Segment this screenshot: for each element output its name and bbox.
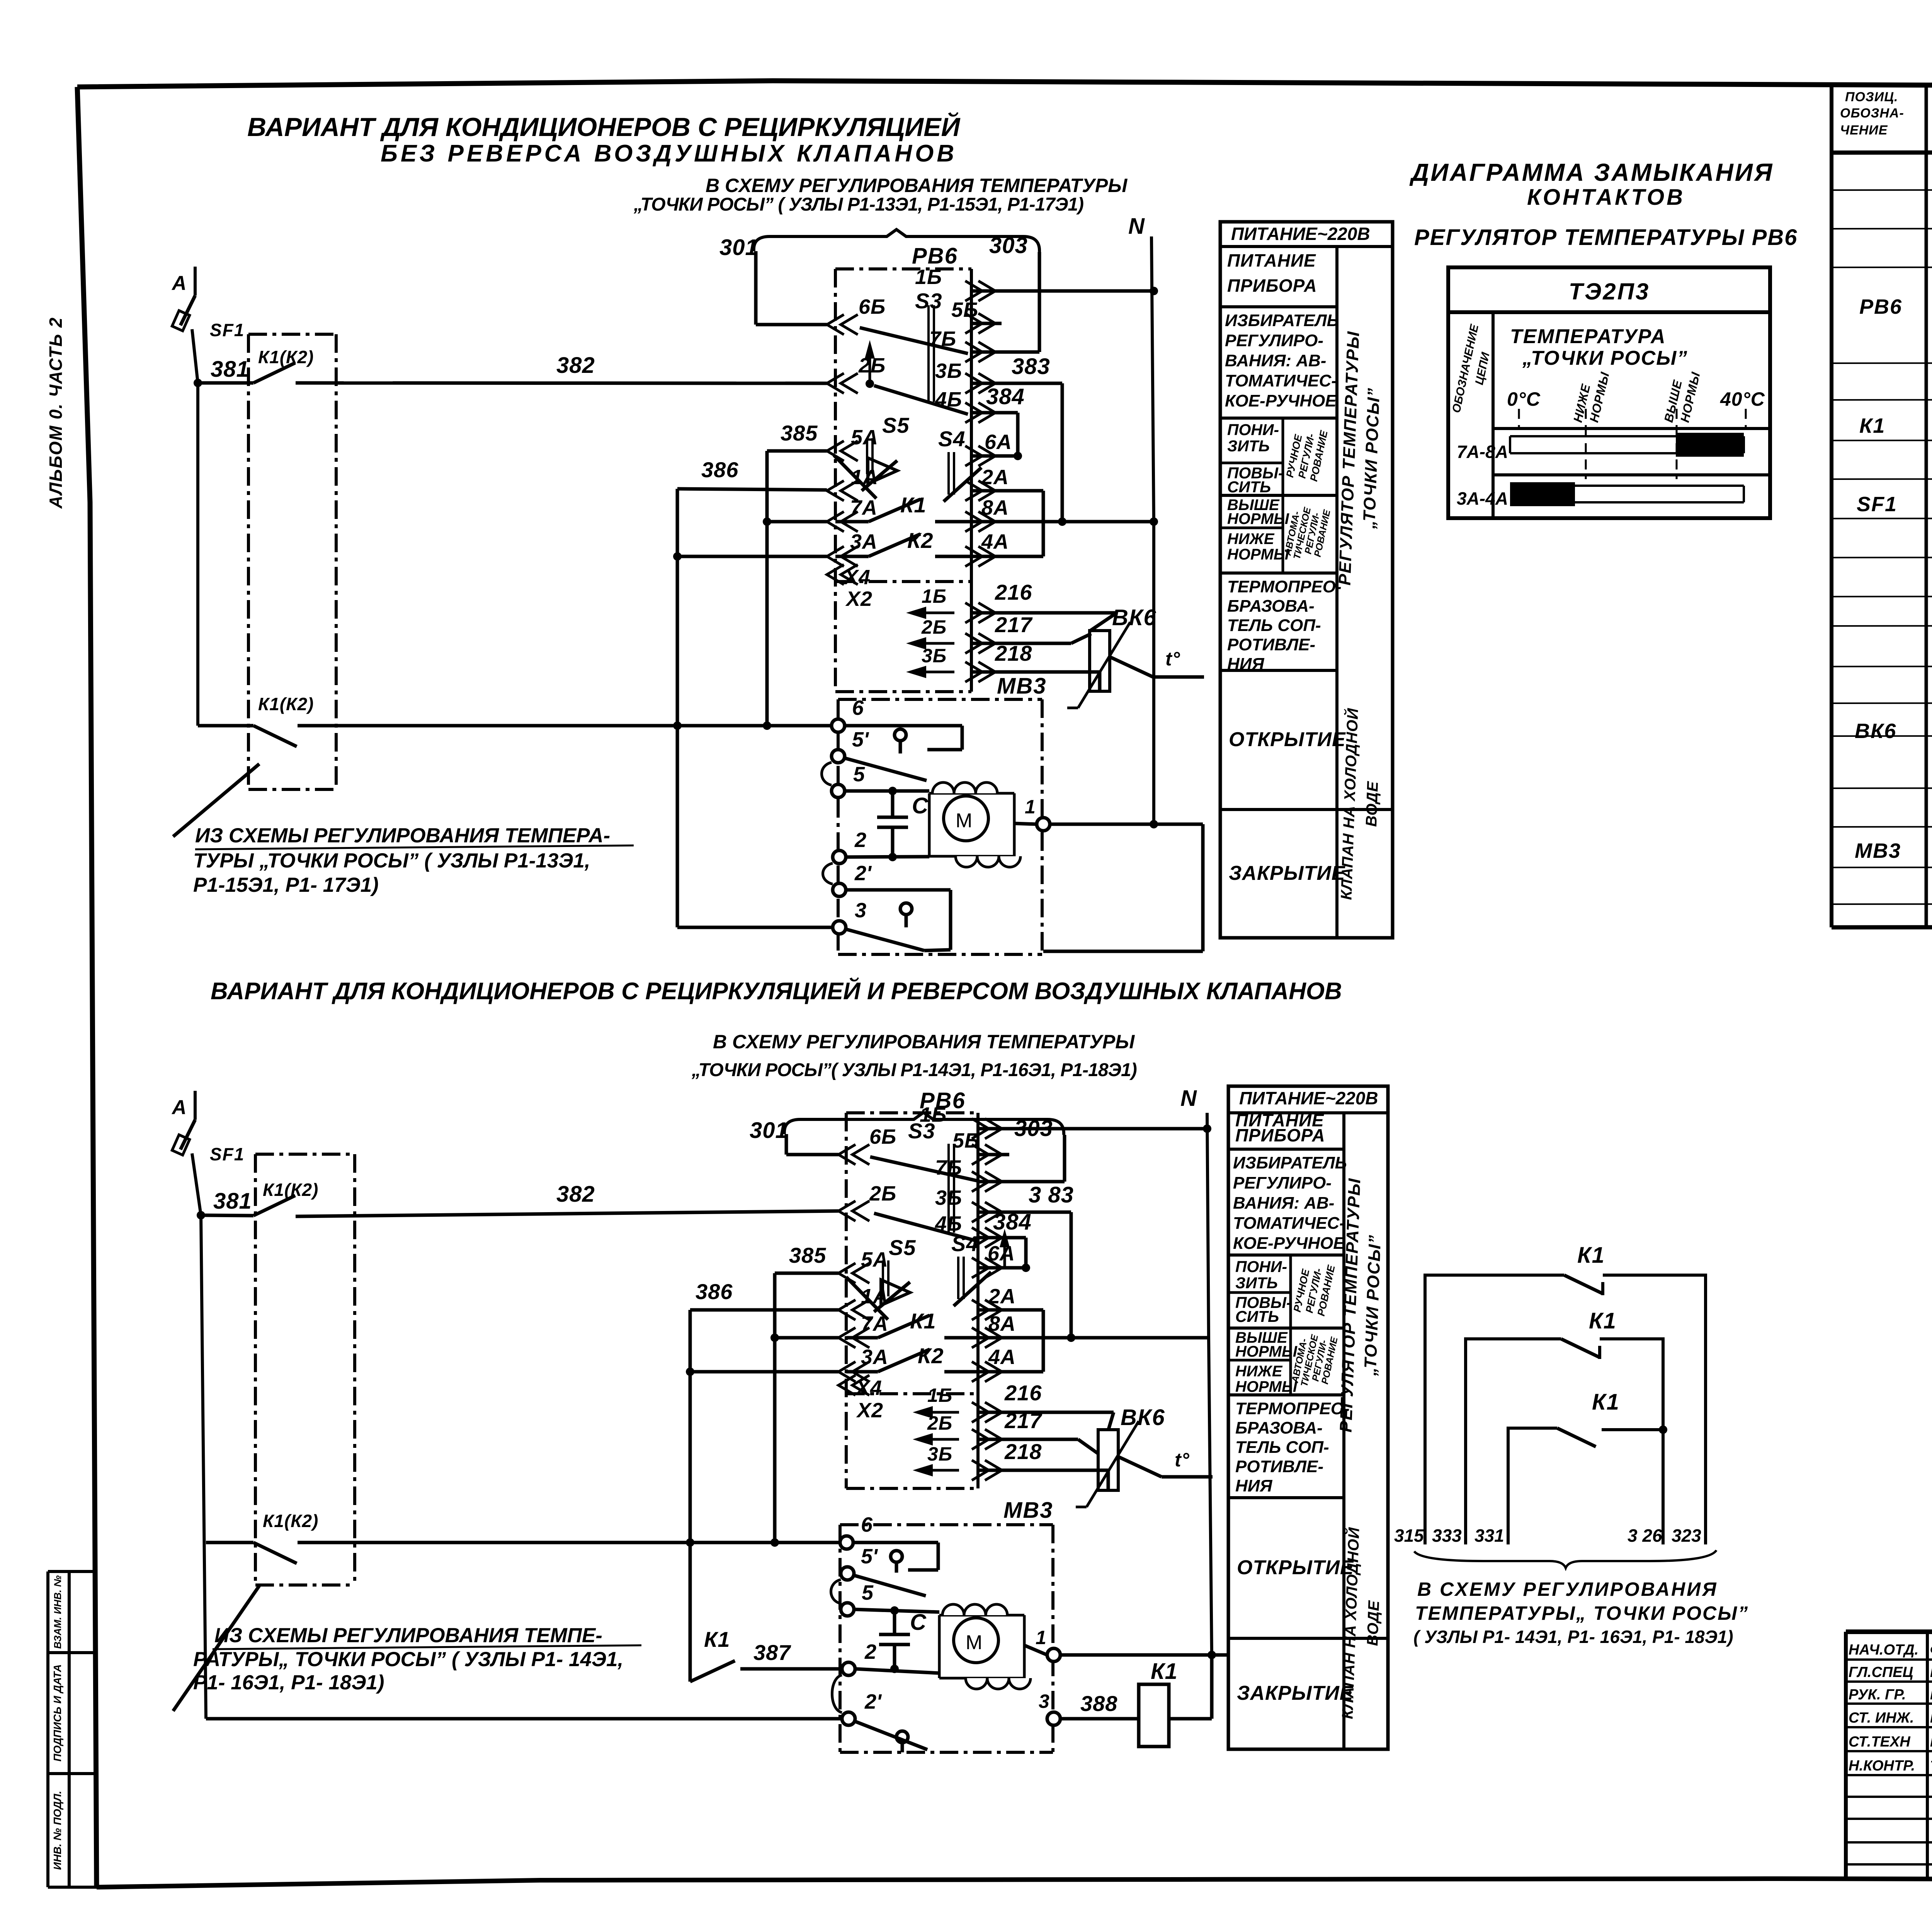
- svg-text:8А: 8А: [981, 496, 1009, 519]
- capacitor C (2): [893, 1611, 896, 1634]
- svg-text:5Б: 5Б: [952, 1129, 980, 1152]
- terminal 2B: [827, 373, 844, 393]
- selector triangle: [868, 458, 897, 484]
- svg-text:3: 3: [855, 899, 866, 922]
- svg-text:К1(К2): К1(К2): [258, 694, 314, 714]
- svg-text:3 83: 3 83: [1029, 1182, 1074, 1207]
- svg-text:М: М: [966, 1631, 982, 1654]
- svg-text:5А: 5А: [851, 426, 878, 449]
- svg-text:S3: S3: [908, 1119, 935, 1143]
- svg-text:НИЖЕ: НИЖЕ: [1227, 531, 1275, 548]
- svg-text:РУК. ГР.: РУК. ГР.: [1849, 1687, 1906, 1703]
- svg-text:ИЗБИРАТЕЛЬ: ИЗБИРАТЕЛЬ: [1225, 311, 1339, 330]
- svg-text:ВЗАМ. ИНВ. №: ВЗАМ. ИНВ. №: [52, 1575, 63, 1649]
- svg-text:218: 218: [995, 641, 1032, 665]
- riser 386 down to contact K1 (2): [689, 1310, 692, 1682]
- sensor terminal 3B-218: [918, 671, 954, 673]
- title block frame: [1846, 1632, 1932, 1880]
- svg-text:Р1-15Э1, Р1- 17Э1): Р1-15Э1, Р1- 17Э1): [193, 874, 379, 896]
- svg-text:БРАЗОВА-: БРАЗОВА-: [1227, 597, 1315, 616]
- svg-text:КОЕ-РУЧНОЕ: КОЕ-РУЧНОЕ: [1225, 391, 1337, 410]
- svg-text:S4: S4: [951, 1231, 979, 1256]
- svg-text:„ТОЧКИ РОСЫ”: „ТОЧКИ РОСЫ”: [1522, 347, 1688, 369]
- terminal 2 (2): [842, 1662, 855, 1675]
- svg-text:НОРМЫ: НОРМЫ: [1227, 510, 1289, 527]
- node 381 junction: [194, 379, 202, 387]
- MB3 boundary dash-dot (2): [840, 1525, 1053, 1752]
- wire 386: [677, 489, 827, 490]
- svg-text:40°С: 40°С: [1720, 388, 1765, 410]
- svg-text:6А: 6А: [985, 430, 1012, 454]
- svg-text:К1(К2): К1(К2): [263, 1511, 318, 1531]
- svg-text:ТЕМПЕРАТУРА: ТЕМПЕРАТУРА: [1510, 325, 1666, 348]
- svg-text:ФИНГЕР: ФИНГЕР: [1930, 1642, 1932, 1658]
- svg-text:382: 382: [556, 1182, 595, 1207]
- upper limit switch: [845, 724, 962, 728]
- svg-text:СТ. ИНЖ.: СТ. ИНЖ.: [1849, 1710, 1914, 1726]
- terminal 6B: [827, 315, 844, 335]
- svg-text:КОНТАКТОВ: КОНТАКТОВ: [1527, 185, 1685, 210]
- svg-text:218: 218: [1004, 1439, 1042, 1464]
- terminal 5B (2): [972, 1145, 989, 1165]
- svg-text:СИТЬ: СИТЬ: [1235, 1308, 1279, 1325]
- svg-text:3А: 3А: [850, 530, 878, 553]
- svg-text:БЕЗ РЕВЕРСА ВОЗДУШНЫХ КЛАПА: БЕЗ РЕВЕРСА ВОЗДУШНЫХ КЛАПАНОВ: [381, 140, 957, 167]
- svg-text:3А: 3А: [861, 1345, 888, 1369]
- svg-text:ПОЗИЦ.: ПОЗИЦ.: [1845, 90, 1898, 104]
- svg-text:3Б: 3Б: [927, 1443, 952, 1465]
- svg-text:Х4: Х4: [843, 566, 871, 589]
- terminal 2B (2): [838, 1201, 855, 1221]
- svg-text:ВОДЕ: ВОДЕ: [1364, 1600, 1383, 1646]
- svg-text:383: 383: [1012, 354, 1050, 379]
- svg-text:6Б: 6Б: [859, 295, 886, 318]
- svg-text:385: 385: [789, 1243, 826, 1267]
- svg-text:3Б: 3Б: [922, 645, 947, 667]
- svg-text:ПИТАНИЕ: ПИТАНИЕ: [1227, 250, 1316, 270]
- wire 5 to motor: [845, 789, 929, 793]
- terminal 5p: [832, 750, 845, 763]
- svg-text:ВАРИАНТ ДЛЯ КОНДИЦИОНЕРОВ С: ВАРИАНТ ДЛЯ КОНДИЦИОНЕРОВ С РЕЦИРКУЛЯЦИЕ…: [211, 977, 1342, 1005]
- svg-text:РЕГУЛЯТОР ТЕМПЕРАТУРЫ РВ6: РЕГУЛЯТОР ТЕМПЕРАТУРЫ РВ6: [1414, 225, 1798, 250]
- svg-text:НОРМЫ: НОРМЫ: [1227, 546, 1289, 563]
- terminal 8A wire to N bus: [965, 512, 982, 532]
- upper limit switch (2): [853, 1541, 938, 1544]
- terminal 7A / contact K1 (2): [838, 1328, 855, 1348]
- terminal X4: [827, 565, 844, 585]
- svg-text:303: 303: [989, 233, 1028, 258]
- svg-text:РЕГУЛИРО-: РЕГУЛИРО-: [1233, 1173, 1332, 1192]
- svg-text:ПИТАНИЕ~220В: ПИТАНИЕ~220В: [1231, 224, 1370, 244]
- svg-text:ОБОЗНА-: ОБОЗНА-: [1840, 106, 1904, 121]
- lead-in bracket (2): [784, 1112, 1064, 1135]
- svg-text:1Б: 1Б: [922, 585, 947, 607]
- svg-text:323: 323: [1672, 1526, 1701, 1546]
- terminal 2A (2): [972, 1300, 989, 1320]
- svg-text:ОТКРЫТИЕ: ОТКРЫТИЕ: [1229, 728, 1346, 751]
- svg-text:К1: К1: [1592, 1389, 1620, 1415]
- svg-text:4А: 4А: [981, 530, 1009, 553]
- svg-text:РУБЧИННСКИЙ: РУБЧИННСКИЙ: [1930, 1664, 1932, 1680]
- terminal 3: [833, 921, 846, 934]
- svg-text:ТЕРМОПРЕО-: ТЕРМОПРЕО-: [1235, 1399, 1350, 1418]
- svg-text:МВ3: МВ3: [997, 673, 1046, 699]
- terminal 4B wire 384: [965, 403, 982, 423]
- wire 301 to terminal 6B: [754, 251, 758, 325]
- svg-text:ПОДПИСЬ И ДАТА: ПОДПИСЬ И ДАТА: [51, 1664, 63, 1762]
- wire: phase bus from SF1: [192, 329, 198, 726]
- svg-text:С: С: [912, 793, 929, 818]
- svg-text:315: 315: [1394, 1526, 1424, 1546]
- svg-text:5А: 5А: [861, 1248, 888, 1271]
- svg-text:ЗИТЬ: ЗИТЬ: [1227, 437, 1270, 455]
- wire 385: [767, 449, 827, 453]
- svg-text:2': 2': [854, 862, 872, 885]
- svg-text:217: 217: [995, 612, 1033, 637]
- svg-text:ИЗ СХЕМЫ РЕГУЛИРОВАНИЯ ТЕМПЕ-: ИЗ СХЕМЫ РЕГУЛИРОВАНИЯ ТЕМПЕ-: [214, 1624, 602, 1647]
- PB6 boundary dash-dot: [835, 269, 971, 692]
- svg-text:5': 5': [861, 1545, 878, 1568]
- svg-text:7А-8А: 7А-8А: [1457, 442, 1508, 462]
- svg-text:СТ.ТЕХН: СТ.ТЕХН: [1849, 1734, 1911, 1750]
- svg-text:387: 387: [753, 1640, 791, 1665]
- riser from wire 386 down to terminal 3: [676, 489, 679, 927]
- terminal 4A (2): [972, 1362, 989, 1382]
- svg-text:2: 2: [854, 828, 866, 852]
- svg-text:2А: 2А: [981, 466, 1009, 489]
- motor M (2): [939, 1614, 1024, 1617]
- svg-text:РОТИВЛЕ-: РОТИВЛЕ-: [1227, 635, 1315, 654]
- wire 301 to terminal 6B (2): [785, 1134, 788, 1155]
- svg-text:Х2: Х2: [856, 1399, 883, 1422]
- leader line to note: [173, 764, 259, 837]
- svg-text:7Б: 7Б: [935, 1156, 962, 1179]
- terminal 2A: [965, 481, 982, 501]
- riser coil to N wire (2): [1210, 1655, 1214, 1719]
- svg-text:S5: S5: [889, 1235, 916, 1260]
- scale tick lines: [1518, 409, 1520, 427]
- svg-text:ПИТАНИЕ~220В: ПИТАНИЕ~220В: [1239, 1088, 1378, 1108]
- svg-text:333: 333: [1432, 1526, 1462, 1546]
- svg-text:SF1: SF1: [210, 320, 245, 340]
- svg-text:S4: S4: [938, 427, 966, 451]
- svg-text:381: 381: [213, 1189, 252, 1214]
- svg-text:1Б: 1Б: [927, 1384, 952, 1406]
- terminal 4B wire 384 (2): [972, 1228, 989, 1248]
- svg-text:388: 388: [1080, 1691, 1117, 1716]
- svg-text:МВ3: МВ3: [1003, 1498, 1053, 1523]
- terminal 6A (2): [972, 1258, 989, 1278]
- svg-text:386: 386: [696, 1279, 733, 1304]
- svg-text:„ТОЧКИ РОСЫ” ( УЗЛЫ Р1-13Э1, Р: „ТОЧКИ РОСЫ” ( УЗЛЫ Р1-13Э1, Р1-15Э1, Р1…: [633, 194, 1083, 215]
- terminal 5 (2): [841, 1603, 854, 1616]
- svg-text:А: А: [171, 272, 187, 294]
- wire 388 to relay coil K1: [1060, 1717, 1139, 1721]
- svg-text:8А: 8А: [988, 1312, 1016, 1335]
- svg-text:SF1: SF1: [1857, 493, 1897, 516]
- riser 385 to wire A (2): [773, 1273, 777, 1543]
- terminal 3 (2): [1047, 1712, 1060, 1725]
- svg-text:НИЯ: НИЯ: [1227, 655, 1264, 673]
- svg-text:ВК6: ВК6: [1121, 1405, 1165, 1430]
- svg-text:К1: К1: [1577, 1243, 1605, 1268]
- svg-text:НАЧ.ОТД.: НАЧ.ОТД.: [1849, 1642, 1918, 1658]
- svg-text:ЕФИМКИНА: ЕФИМКИНА: [1930, 1734, 1932, 1750]
- svg-text:Р1- 16Э1, Р1- 18Э1): Р1- 16Э1, Р1- 18Э1): [193, 1671, 384, 1694]
- svg-text:А: А: [171, 1096, 187, 1119]
- svg-text:1: 1: [1036, 1627, 1046, 1648]
- sensor terminal 1B-216: [918, 612, 954, 614]
- terminal X4 (2): [838, 1375, 855, 1395]
- svg-text:N: N: [1180, 1086, 1197, 1111]
- svg-text:НИЖЕ: НИЖЕ: [1235, 1363, 1283, 1380]
- svg-text:3Б: 3Б: [935, 359, 962, 383]
- lower limit switch (2): [896, 1731, 908, 1743]
- riser from wire 385 to wire A: [765, 451, 769, 726]
- svg-text:БРАЗОВА-: БРАЗОВА-: [1235, 1418, 1323, 1437]
- svg-text:РВ6: РВ6: [1859, 295, 1902, 318]
- sensor terminal 2B-217: [918, 642, 954, 645]
- svg-text:1А: 1А: [851, 466, 878, 489]
- svg-text:7А: 7А: [850, 496, 878, 519]
- terminal 2: [833, 850, 846, 864]
- svg-text:КОЕ-РУЧНОЕ: КОЕ-РУЧНОЕ: [1233, 1234, 1345, 1253]
- svg-text:6: 6: [852, 696, 864, 719]
- terminal 7B wire 303: [965, 342, 982, 362]
- svg-text:В СХЕМУ РЕГУЛИРОВАНИЯ ТЕМПЕРАТ: В СХЕМУ РЕГУЛИРОВАНИЯ ТЕМПЕРАТУРЫ: [713, 1031, 1135, 1053]
- svg-text:БРОНШТЕЙН: БРОНШТЕЙН: [1930, 1686, 1932, 1702]
- terminal 5B: [965, 313, 982, 333]
- svg-text:216: 216: [1004, 1381, 1042, 1405]
- svg-text:1А: 1А: [861, 1285, 888, 1308]
- svg-text:3Б: 3Б: [935, 1186, 962, 1209]
- terminal 5p (2): [841, 1567, 854, 1580]
- wire from terminal 1 to N bus (2): [1060, 1653, 1228, 1657]
- component list table: [1832, 86, 1932, 927]
- svg-text:t°: t°: [1175, 1449, 1190, 1471]
- svg-text:384: 384: [993, 1209, 1032, 1235]
- svg-text:301: 301: [719, 235, 758, 260]
- terminal 1B wire to N bus (2): [972, 1119, 989, 1139]
- wire 7A stub (2): [775, 1336, 838, 1340]
- svg-text:ВАНИЯ: АВ-: ВАНИЯ: АВ-: [1225, 351, 1326, 370]
- svg-text:С: С: [910, 1610, 927, 1635]
- svg-text:384: 384: [986, 384, 1025, 409]
- manual direction arrow (2): [1003, 1239, 1006, 1267]
- wire A to terminal 6 (2): [206, 1541, 253, 1544]
- svg-text:К1: К1: [704, 1627, 730, 1651]
- brace under ladder: [1414, 1550, 1716, 1568]
- terminal 5A (2): [838, 1263, 855, 1283]
- svg-text:382: 382: [556, 353, 595, 378]
- svg-text:ПОНИ-: ПОНИ-: [1227, 421, 1279, 439]
- svg-text:ТЕЛЬ СОП-: ТЕЛЬ СОП-: [1235, 1438, 1329, 1457]
- terminal 8A wire to N bus (2): [972, 1328, 989, 1348]
- lower limit switch: [846, 888, 951, 892]
- svg-text:ЗАКРЫТИЕ: ЗАКРЫТИЕ: [1229, 862, 1345, 884]
- svg-text:ТУРЫ „ТОЧКИ РОСЫ” ( УЗЛЫ Р1-13: ТУРЫ „ТОЧКИ РОСЫ” ( УЗЛЫ Р1-13Э1,: [193, 849, 590, 872]
- svg-text:1Б: 1Б: [915, 265, 942, 289]
- svg-text:ВАРИАНТ ДЛЯ КОНДИЦИОНЕРОВ С: ВАРИАНТ ДЛЯ КОНДИЦИОНЕРОВ С РЕЦИРКУЛЯЦИЕ…: [247, 112, 961, 142]
- wire: phase bus from SF1 (2): [192, 1153, 206, 1719]
- svg-text:4А: 4А: [988, 1345, 1016, 1369]
- svg-text:К2: К2: [918, 1344, 944, 1368]
- selector triangle (2): [881, 1280, 910, 1305]
- svg-text:4Б: 4Б: [935, 388, 962, 411]
- svg-text:331: 331: [1475, 1526, 1504, 1546]
- svg-text:216: 216: [995, 580, 1032, 604]
- svg-text:5: 5: [853, 763, 865, 786]
- relay housing K1 dash-dot box (2): [255, 1154, 355, 1585]
- terminal 6 (2): [840, 1536, 853, 1549]
- svg-text:SF1: SF1: [210, 1144, 245, 1164]
- svg-text:ЧЕНИЕ: ЧЕНИЕ: [1840, 123, 1888, 138]
- svg-text:6: 6: [861, 1513, 873, 1536]
- node 381 junction (2): [197, 1211, 205, 1219]
- terminal 1: [1014, 823, 1037, 824]
- svg-text:6Б: 6Б: [869, 1125, 896, 1148]
- terminal 5: [832, 784, 845, 798]
- terminal 1A: [827, 481, 844, 501]
- svg-text:СИТЬ: СИТЬ: [1227, 478, 1271, 496]
- svg-text:В СХЕМУ РЕГУЛИРОВАНИЯ: В СХЕМУ РЕГУЛИРОВАНИЯ: [1417, 1578, 1718, 1600]
- svg-text:7Б: 7Б: [929, 327, 956, 350]
- wire 382: [296, 383, 827, 383]
- svg-text:РАТУРЫ„ ТОЧКИ РОСЫ” ( УЗЛЫ Р1-: РАТУРЫ„ ТОЧКИ РОСЫ” ( УЗЛЫ Р1- 14Э1,: [193, 1648, 623, 1671]
- wire 387: [740, 1667, 842, 1671]
- svg-text:7А: 7А: [861, 1312, 888, 1335]
- svg-text:386: 386: [701, 457, 738, 482]
- svg-text:НИЯ: НИЯ: [1235, 1476, 1272, 1495]
- wire from terminal 1 to N bus: [1050, 823, 1203, 826]
- breaker SF1: [180, 1120, 195, 1150]
- wire 7A stub: [767, 520, 827, 524]
- svg-text:РОТИВЛЕ-: РОТИВЛЕ-: [1235, 1457, 1323, 1476]
- left stamp column boxes: [48, 1571, 97, 1887]
- terminal 7A / contact K1: [827, 512, 844, 532]
- svg-text:АЛЬБОМ 0. ЧАСТЬ 2: АЛЬБОМ 0. ЧАСТЬ 2: [46, 317, 66, 509]
- svg-text:Х4: Х4: [855, 1376, 882, 1400]
- terminal 3B wire 383 (2): [972, 1202, 989, 1222]
- terminal 1A (2): [838, 1300, 855, 1320]
- svg-text:301: 301: [750, 1118, 788, 1143]
- svg-text:НИКИФОРОВА: НИКИФОРОВА: [1930, 1710, 1932, 1726]
- leader line to note (2): [173, 1586, 259, 1711]
- sensor terminal 1B-216 (2): [924, 1411, 959, 1414]
- svg-text:К1: К1: [1151, 1659, 1178, 1684]
- terminal 1B wire to N bus: [965, 281, 982, 301]
- svg-text:„ТОЧКИ РОСЫ”( УЗЛЫ Р1-14Э1, Р1: „ТОЧКИ РОСЫ”( УЗЛЫ Р1-14Э1, Р1-16Э1, Р1-…: [691, 1060, 1137, 1080]
- wire N bus bottom to MB3: [1043, 950, 1203, 953]
- thermistor BK6 (2): [1098, 1430, 1118, 1490]
- svg-text:ВОДЕ: ВОДЕ: [1363, 781, 1381, 827]
- svg-text:ТЕМПЕРАТУРЫ„ ТОЧКИ РОСЫ”: ТЕМПЕРАТУРЫ„ ТОЧКИ РОСЫ”: [1415, 1602, 1749, 1624]
- svg-text:ГЛ.СПЕЦ: ГЛ.СПЕЦ: [1849, 1664, 1913, 1680]
- closing-path riser: [1201, 824, 1205, 951]
- svg-text:ТУЛУПОВА: ТУЛУПОВА: [1930, 1758, 1932, 1774]
- terminal 1 (2): [1024, 1645, 1047, 1655]
- wire 385 (2): [775, 1272, 838, 1275]
- svg-text:3: 3: [1039, 1690, 1049, 1712]
- svg-text:РЕГУЛИРО-: РЕГУЛИРО-: [1225, 331, 1323, 350]
- svg-text:М: М: [956, 810, 972, 832]
- svg-text:Х2: Х2: [845, 587, 872, 611]
- svg-text:К2: К2: [907, 528, 934, 553]
- contact K1(K2) upper: [198, 381, 253, 385]
- capacitor C: [891, 791, 895, 817]
- svg-text:ИЗБИРАТЕЛЬ: ИЗБИРАТЕЛЬ: [1233, 1153, 1347, 1172]
- svg-text:ВК6: ВК6: [1855, 719, 1896, 743]
- svg-text:2А: 2А: [988, 1285, 1016, 1308]
- function description column: [1220, 222, 1393, 938]
- terminal 6: [832, 719, 845, 732]
- svg-text:ПРИБОРА: ПРИБОРА: [1235, 1125, 1325, 1145]
- svg-text:ТОМАТИЧЕС-: ТОМАТИЧЕС-: [1233, 1214, 1345, 1233]
- breaker SF1: [180, 296, 195, 325]
- motor M: [929, 792, 1014, 795]
- signature table: [1846, 1632, 1932, 1880]
- svg-text:5: 5: [862, 1581, 874, 1604]
- relay housing K1 dash-dot box: [248, 334, 336, 789]
- wire 386 (2): [690, 1308, 838, 1312]
- terminal 5A: [827, 441, 844, 461]
- lead-in bracket: [754, 230, 1039, 252]
- svg-text:ТЕРМОПРЕО-: ТЕРМОПРЕО-: [1227, 577, 1342, 596]
- svg-text:ИЗ СХЕМЫ РЕГУЛИРОВАНИЯ ТЕМПЕРА: ИЗ СХЕМЫ РЕГУЛИРОВАНИЯ ТЕМПЕРА-: [195, 824, 610, 847]
- svg-text:217: 217: [1004, 1408, 1043, 1433]
- svg-text:5Б: 5Б: [951, 298, 978, 321]
- terminal 3B wire 383: [965, 373, 982, 393]
- wire 3A stub: [677, 555, 827, 558]
- svg-text:ПРИБОРА: ПРИБОРА: [1227, 276, 1317, 296]
- contact K1(K2) upper (2): [201, 1215, 253, 1216]
- svg-text:1: 1: [1025, 796, 1036, 818]
- svg-text:К1: К1: [1589, 1308, 1617, 1333]
- terminal 3A / contact K2 (2): [838, 1362, 855, 1382]
- wire 3A stub (2): [690, 1370, 838, 1374]
- svg-text:ЗАКРЫТИЕ: ЗАКРЫТИЕ: [1237, 1682, 1354, 1704]
- svg-text:381: 381: [211, 357, 249, 382]
- sensor terminal 2B-217 (2): [924, 1438, 959, 1441]
- svg-text:N: N: [1128, 214, 1145, 239]
- terminal 2p (2): [842, 1712, 855, 1725]
- svg-text:3А-4А: 3А-4А: [1457, 488, 1508, 509]
- terminal 2p: [833, 883, 846, 896]
- svg-text:( УЗЛЫ Р1- 14Э1, Р1- 16Э1, Р1: ( УЗЛЫ Р1- 14Э1, Р1- 16Э1, Р1- 18Э1): [1413, 1627, 1733, 1647]
- function description column: [1228, 1086, 1388, 1749]
- svg-text:2Б: 2Б: [927, 1412, 952, 1434]
- svg-text:ТЕЛЬ СОП-: ТЕЛЬ СОП-: [1227, 616, 1321, 635]
- svg-text:К1: К1: [1859, 414, 1885, 437]
- svg-text:2Б: 2Б: [921, 616, 947, 638]
- svg-text:3 26: 3 26: [1628, 1526, 1662, 1546]
- sensor terminal 3B-218 (2): [924, 1469, 959, 1472]
- svg-text:ЗИТЬ: ЗИТЬ: [1235, 1274, 1278, 1292]
- svg-text:0°С: 0°С: [1507, 388, 1541, 410]
- terminal 3A / contact K2: [827, 546, 844, 566]
- terminal 6A: [965, 446, 982, 466]
- svg-text:ТОМАТИЧЕС-: ТОМАТИЧЕС-: [1225, 371, 1337, 390]
- terminal 6B (2): [838, 1145, 855, 1165]
- svg-text:t°: t°: [1165, 648, 1180, 670]
- svg-text:Н.КОНТР.: Н.КОНТР.: [1849, 1758, 1915, 1774]
- svg-text:НОРМЫ: НОРМЫ: [1235, 1343, 1298, 1360]
- svg-text:В СХЕМУ РЕГУЛИРОВАНИЯ ТЕМПЕРАТ: В СХЕМУ РЕГУЛИРОВАНИЯ ТЕМПЕРАТУРЫ: [706, 175, 1128, 196]
- svg-text:S5: S5: [882, 413, 910, 437]
- svg-text:2: 2: [864, 1640, 876, 1663]
- MB3 boundary dash-dot: [838, 699, 1042, 954]
- svg-text:ТЭ2П3: ТЭ2П3: [1569, 279, 1650, 304]
